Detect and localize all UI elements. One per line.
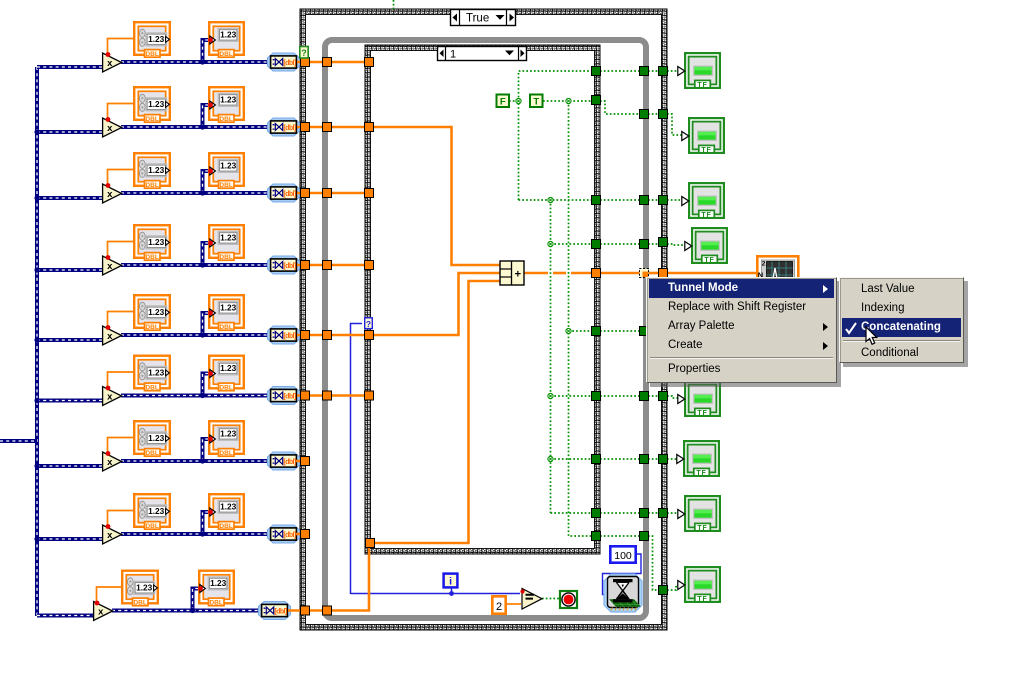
mouse cursor: [865, 326, 883, 348]
tunnel outer case boolean y=513: [659, 509, 668, 518]
numeric indicator DBL row 5: [209, 295, 244, 331]
wire: control to multiply row 9: [97, 587, 122, 604]
multiply node row 4: [103, 256, 122, 275]
coercion dot equal node: [520, 589, 524, 593]
wire: control to multiply row 3: [108, 170, 134, 187]
tunnel inner case boolean y=244: [592, 240, 601, 249]
wire junction 568.5,331: [566, 328, 571, 333]
multiply node row 9: [94, 602, 113, 621]
wire junction 550.5,244: [548, 241, 553, 246]
numeric control DBL row 7: [134, 421, 170, 457]
wire junction 550.5,459: [548, 456, 553, 461]
wire: control to multiply row 8: [108, 511, 134, 528]
wire: multiply output row 3: [121, 191, 273, 195]
tunnel inner case row 4: [365, 261, 374, 270]
tunnel inner case row 5: [365, 331, 374, 340]
wire: bottom green outside loop down: [648, 536, 659, 590]
tunnel loop boolean y=200: [640, 196, 649, 205]
wire: row1 green loop to case: [648, 70, 659, 72]
coercion dot indicator row 8: [208, 510, 213, 515]
wire: control to multiply row 5: [108, 312, 134, 329]
inner case selector label "1": [438, 47, 527, 61]
tunnel inner case boolean y=200: [592, 196, 601, 205]
coercion dot multiply row 3: [106, 183, 111, 188]
wire: bus branch row 6: [37, 399, 104, 403]
wire: bus branch row 9: [37, 614, 95, 618]
wire: main vertical bus: [35, 67, 39, 616]
tunnel loop boolean y=331: [640, 327, 649, 336]
tunnel loop boolean y=244: [640, 240, 649, 249]
wire: multiply output row 9: [112, 609, 264, 613]
wire: indicator branch row 2: [203, 105, 212, 127]
wire: row2 green to TF2: [667, 114, 682, 135]
junction row 6 bus: [34, 398, 39, 403]
tunnel loop boolean y=513: [640, 509, 649, 518]
numeric control DBL row 4: [134, 225, 170, 261]
tunnel loop border row 3: [323, 189, 332, 198]
wire: indicator branch row 3: [203, 171, 212, 193]
svg-text:100: 100: [614, 550, 632, 562]
numeric control DBL row 3: [134, 153, 170, 189]
tunnel outer case row 5: [301, 331, 310, 340]
svg-text:i: i: [449, 576, 452, 588]
wire: bottom green inside loop: [600, 535, 640, 537]
wire: row 4 into structures: [297, 264, 369, 267]
wire: output to waveform chart: [667, 272, 758, 275]
wire: build array output segment a: [524, 272, 548, 275]
wire: row7 green inside loop: [600, 458, 640, 460]
waveform chart terminal: [757, 256, 798, 296]
wire: bottom tunnel to build array input 3: [374, 281, 500, 543]
conversion node to-DBL-array row 7: [268, 452, 300, 470]
wire: bus branch row 1: [37, 65, 104, 69]
tunnel inner case row 3: [365, 189, 374, 198]
svg-text:F: F: [500, 96, 506, 107]
wire: bus branch row 8: [37, 537, 104, 541]
wire: row7 green loop to case: [648, 458, 659, 460]
junction row 5 bus: [34, 337, 39, 342]
tunnel outer case row 9: [301, 606, 310, 615]
wire: row8 green to TF8: [667, 512, 678, 514]
coercion dot indicator row 4: [208, 241, 213, 246]
wire: row2 green loop to case: [648, 113, 659, 115]
tunnel inner case boolean y=513: [592, 509, 601, 518]
wire: row 5 into structures: [297, 334, 369, 337]
wire: row7 green to inner tunnel: [551, 458, 593, 460]
wire: row8 green to inner tunnel: [551, 512, 593, 514]
svg-text:2: 2: [762, 261, 766, 268]
multiply node row 6: [103, 387, 122, 406]
coercion dot indicator row 1: [208, 38, 213, 43]
coercion dot indicator row 9: [198, 586, 203, 591]
coercion dot indicator row 7: [208, 437, 213, 442]
junction row 8 indicator stub: [200, 531, 205, 536]
wire junction 550.5,396: [548, 393, 553, 398]
junction row 4 indicator stub: [200, 262, 205, 267]
junction row 3 indicator stub: [200, 190, 205, 195]
wire: control to multiply row 6: [108, 372, 134, 389]
boolean indicator TF 2: [682, 118, 724, 154]
outer case selector label "True": [451, 10, 516, 26]
build array node (concatenate): [500, 261, 524, 285]
wire: row3 green to TF3: [667, 199, 682, 201]
coercion dot multiply row 2: [106, 117, 111, 122]
conversion node to-DBL-array row 5: [268, 326, 300, 344]
boolean constant F: [497, 95, 510, 108]
wire: boolean stub top edge: [393, 0, 395, 10]
tunnel loop boolean y=396: [640, 392, 649, 401]
coercion dot multiply row 5: [106, 325, 111, 330]
wire: row6 green to inner tunnel: [551, 395, 593, 397]
equal? node: [522, 589, 542, 610]
wire: multiply output row 2: [121, 125, 273, 129]
tunnel inner case row 1: [365, 58, 374, 67]
numeric control DBL row 1: [134, 22, 170, 58]
conversion node to-DBL-array row 6: [268, 387, 300, 405]
junction row 4 bus: [34, 267, 39, 272]
tunnel outer case row 7: [301, 457, 310, 466]
numeric indicator DBL row 4: [209, 225, 244, 261]
boolean indicator TF 8: [678, 496, 720, 532]
tunnel loop boolean y=114: [640, 110, 649, 119]
outer case structure border (True case): [300, 9, 667, 630]
junction row 1 indicator stub: [200, 59, 205, 64]
wire: row 2 into structures: [297, 126, 369, 129]
wire: row5 green to inner tunnel: [569, 330, 593, 332]
tunnel outer case row 3: [301, 189, 310, 198]
boolean indicator TF 4: [685, 228, 727, 264]
numeric indicator DBL row 2: [209, 87, 244, 123]
wire: indicator branch row 4: [203, 243, 212, 265]
conversion node to-DBL-array row 1: [268, 53, 300, 71]
iteration terminal i: [444, 574, 458, 588]
wire: 100 constant to wait node: [603, 554, 642, 595]
coercion dot indicator row 5: [208, 311, 213, 316]
wire: indicator branch row 9: [193, 589, 202, 611]
tunnel inner case boolean y=536: [592, 532, 601, 541]
tunnel loop border row 9: [323, 606, 332, 615]
wire: row 7 to outer tunnel only: [296, 460, 307, 463]
wire: multiply output row 7: [121, 459, 273, 463]
inner case structure border (case 1): [365, 45, 600, 554]
tunnel outer case boolean y=200: [659, 196, 668, 205]
numeric control DBL row 6: [134, 356, 170, 392]
tunnel outer case boolean y=396: [659, 392, 668, 401]
tunnel loop border row 1: [323, 58, 332, 67]
tunnel inner case output: [592, 269, 601, 278]
wire junction 518.5,101: [516, 98, 521, 103]
svg-text:+: +: [515, 269, 521, 281]
numeric constant 2: [492, 596, 505, 613]
wire: control to multiply row 2: [108, 104, 134, 121]
tunnel inner case boolean y=100: [592, 96, 601, 105]
tunnel outer case row 8: [301, 530, 310, 539]
wire: multiply output row 4: [121, 263, 273, 267]
conversion node to-DBL-array row 2: [268, 118, 300, 136]
multiply node row 7: [103, 452, 122, 471]
wire junction 550.5,200: [548, 197, 553, 202]
wire: indicator branch row 7: [203, 439, 212, 461]
loop stop terminal: [560, 591, 577, 608]
wire: bus branch row 4: [37, 268, 104, 272]
tunnel being right-clicked (marching ants): [640, 269, 649, 278]
tunnel loop boolean y=459: [640, 455, 649, 464]
coercion dot indicator row 2: [208, 103, 213, 108]
tunnel outer case row 1: [301, 58, 310, 67]
wire: constant 2 to equal node: [505, 603, 521, 605]
svg-text:?: ?: [366, 319, 371, 329]
wire: row 9 along loop bottom up to inner case tunnel: [288, 545, 369, 611]
coercion dot multiply row 9: [95, 601, 100, 606]
svg-text:2: 2: [496, 601, 502, 613]
boolean indicator TF 9: [678, 567, 720, 603]
wire: F constant stub: [509, 100, 516, 102]
tunnel outer case boolean y=71: [659, 67, 668, 76]
wire: row3 green to inner tunnel: [519, 199, 593, 201]
tunnel outer case boolean y=114: [659, 110, 668, 119]
multiply node row 2: [103, 118, 122, 137]
tunnel loop boolean y=536: [640, 532, 649, 541]
wire junction 568.5,101: [566, 98, 571, 103]
coercion dot multiply row 6: [106, 386, 111, 391]
wire: bus branch row 2: [37, 130, 104, 134]
wire: bus branch row 3: [37, 196, 104, 200]
wire: indicator branch row 6: [203, 374, 212, 396]
numeric control DBL row 5: [134, 295, 170, 331]
boolean constant T: [530, 95, 543, 108]
checkmark on Concatenating: [844, 321, 860, 337]
boolean indicator TF 6: [678, 381, 720, 417]
multiply node row 3: [103, 184, 122, 203]
numeric indicator DBL row 7: [209, 421, 244, 457]
svg-text:?: ?: [301, 48, 307, 58]
tunnel inner case bottom (row 9): [366, 539, 375, 548]
junction row 6 indicator stub: [200, 393, 205, 398]
wire: bottom green to TF9: [667, 585, 678, 590]
conversion node to-DBL-array row 9: [259, 602, 291, 620]
coercion dot indicator row 6: [208, 371, 213, 376]
wire: row4 green inside loop: [600, 243, 640, 245]
wire: indicator branch row 8: [203, 512, 212, 534]
wire: row 3 into structures: [297, 192, 369, 195]
wire: multiply output row 6: [121, 394, 273, 398]
wire: row 8 to outer tunnel only: [296, 533, 307, 536]
junction row 2 indicator stub: [200, 124, 205, 129]
wire: indicator branch row 1: [203, 40, 212, 62]
coercion dot multiply row 4: [106, 255, 111, 260]
numeric indicator DBL row 1: [209, 22, 244, 58]
wire: green vertical chain: [550, 200, 552, 513]
wire: T constant to inner tunnel row 2: [543, 100, 592, 102]
tunnel outer case row 2: [301, 123, 310, 132]
tunnel inner case boolean y=396: [592, 392, 601, 401]
boolean indicator TF 3: [682, 183, 724, 219]
svg-text:1: 1: [450, 49, 456, 61]
wire: row 2 tunnel to build array input 1: [371, 127, 500, 265]
multiply node row 8: [103, 525, 122, 544]
tunnel loop border row 5: [323, 331, 332, 340]
numeric control DBL row 2: [134, 87, 170, 123]
junction i wire: [449, 591, 454, 596]
wire: row4 green loop to case: [648, 243, 659, 245]
svg-text:True: True: [466, 13, 489, 25]
svg-text:T: T: [533, 96, 539, 107]
tunnel inner case boolean y=331: [592, 327, 601, 336]
numeric control DBL row 8: [134, 494, 170, 530]
numeric indicator DBL row 8: [209, 494, 244, 530]
wire: row3 green inside loop: [600, 199, 640, 201]
wire: row6 green to TF6: [667, 396, 678, 398]
junction row 7 indicator stub: [200, 458, 205, 463]
junction row 2 bus: [34, 129, 39, 134]
wire: output loop to case tunnel: [648, 272, 659, 275]
numeric constant 100: [610, 546, 635, 562]
wire: row4 green to inner tunnel: [551, 243, 593, 245]
wire: row 1 into structures: [297, 61, 369, 64]
coercion dot multiply row 7: [106, 451, 111, 456]
wire: row5 green inside loop: [600, 330, 640, 332]
submenu: [839, 277, 964, 363]
multiply node row 5: [103, 326, 122, 345]
tunnel inner case boolean y=71: [592, 67, 601, 76]
conversion node to-DBL-array row 4: [268, 256, 300, 274]
conversion node to-DBL-array row 3: [268, 184, 300, 202]
wire: bus branch row 5: [37, 338, 104, 342]
numeric indicator DBL row 9: [199, 571, 234, 607]
wire: T vertical down to bottom tunnel: [569, 101, 593, 536]
tunnel outer case boolean y=459: [659, 455, 668, 464]
wire: multiply output row 5: [121, 333, 273, 337]
tunnel outer case row 4: [301, 261, 310, 270]
inner case selector terminal ?: [365, 318, 373, 329]
boolean indicator TF 7: [677, 441, 719, 477]
wire: row3 green loop to case: [648, 199, 659, 201]
outer case selector terminal ?: [300, 47, 308, 59]
coercion dot multiply row 1: [106, 52, 111, 57]
wire: external feed from left edge: [0, 439, 37, 443]
wire: i to equal node: [351, 593, 521, 595]
context menu: [646, 277, 837, 383]
wire: equal to stop terminal: [542, 598, 560, 600]
wire: row1 green inside loop: [600, 70, 640, 72]
junction row 5 indicator stub: [200, 332, 205, 337]
wire: build array output segment b: [553, 272, 566, 275]
tunnel outer case boolean y=590: [659, 586, 668, 595]
tunnel outer case boolean y=331: [659, 327, 668, 336]
tunnel outer case output: [659, 269, 668, 278]
wire: row 6 into structures: [297, 394, 369, 397]
wire: output through loop tunnel: [600, 272, 640, 275]
tunnel inner case row 6: [365, 391, 374, 400]
numeric indicator DBL row 6: [209, 356, 244, 392]
wire: multiply output row 1: [121, 60, 273, 64]
wire: i to inner case selector: [351, 324, 363, 595]
coercion dot indicator row 3: [208, 169, 213, 174]
tunnel inner case boolean y=459: [592, 455, 601, 464]
wait until next ms multiple node (hourglass): [604, 574, 642, 612]
multiply node row 1: [103, 53, 122, 72]
tunnel outer case boolean y=242: [659, 238, 668, 247]
conversion node to-DBL-array row 8: [268, 525, 300, 543]
numeric control DBL row 9: [122, 571, 158, 607]
wire: F vertical up to row 1 and tunnel: [519, 71, 593, 200]
while loop border: [325, 40, 646, 618]
wire: control to multiply row 1: [108, 39, 134, 56]
wire: row7 green to TF7: [667, 458, 677, 460]
wire: build array output segment c: [571, 272, 592, 275]
tunnel outer case row 6: [301, 391, 310, 400]
wire: i terminal stub: [451, 588, 453, 594]
wire: row4 green to TF4: [667, 244, 686, 245]
numeric indicator DBL row 3: [209, 153, 244, 189]
wire: row1 green to TF1: [667, 70, 678, 72]
tunnel loop border row 6: [323, 391, 332, 400]
wire: control to multiply row 7: [108, 438, 134, 455]
tunnel inner case row 2: [365, 123, 374, 132]
wire: row6 green inside loop: [600, 395, 640, 397]
wire: row6 green loop to case: [648, 395, 659, 397]
wire: row2 green step inside loop: [600, 101, 640, 114]
junction row 8 bus: [34, 536, 39, 541]
boolean indicator TF 1: [678, 53, 720, 89]
wire: multiply output row 8: [121, 532, 273, 536]
junction row 9 indicator stub: [190, 608, 195, 613]
coercion dot multiply row 8: [106, 524, 111, 529]
wire: row8 green loop to case: [648, 512, 659, 514]
tunnel loop border row 4: [323, 261, 332, 270]
wire: bus branch row 7: [37, 464, 104, 468]
wire: row 5 tunnel to build array input 2: [371, 273, 500, 335]
wire: row8 green inside loop: [600, 512, 640, 514]
junction row 3 bus: [34, 195, 39, 200]
wire: control to multiply row 4: [108, 242, 134, 259]
tunnel loop boolean y=71: [640, 67, 649, 76]
tunnel loop border row 2: [323, 123, 332, 132]
wire: indicator branch row 5: [203, 313, 212, 335]
junction row 7 bus: [34, 463, 39, 468]
